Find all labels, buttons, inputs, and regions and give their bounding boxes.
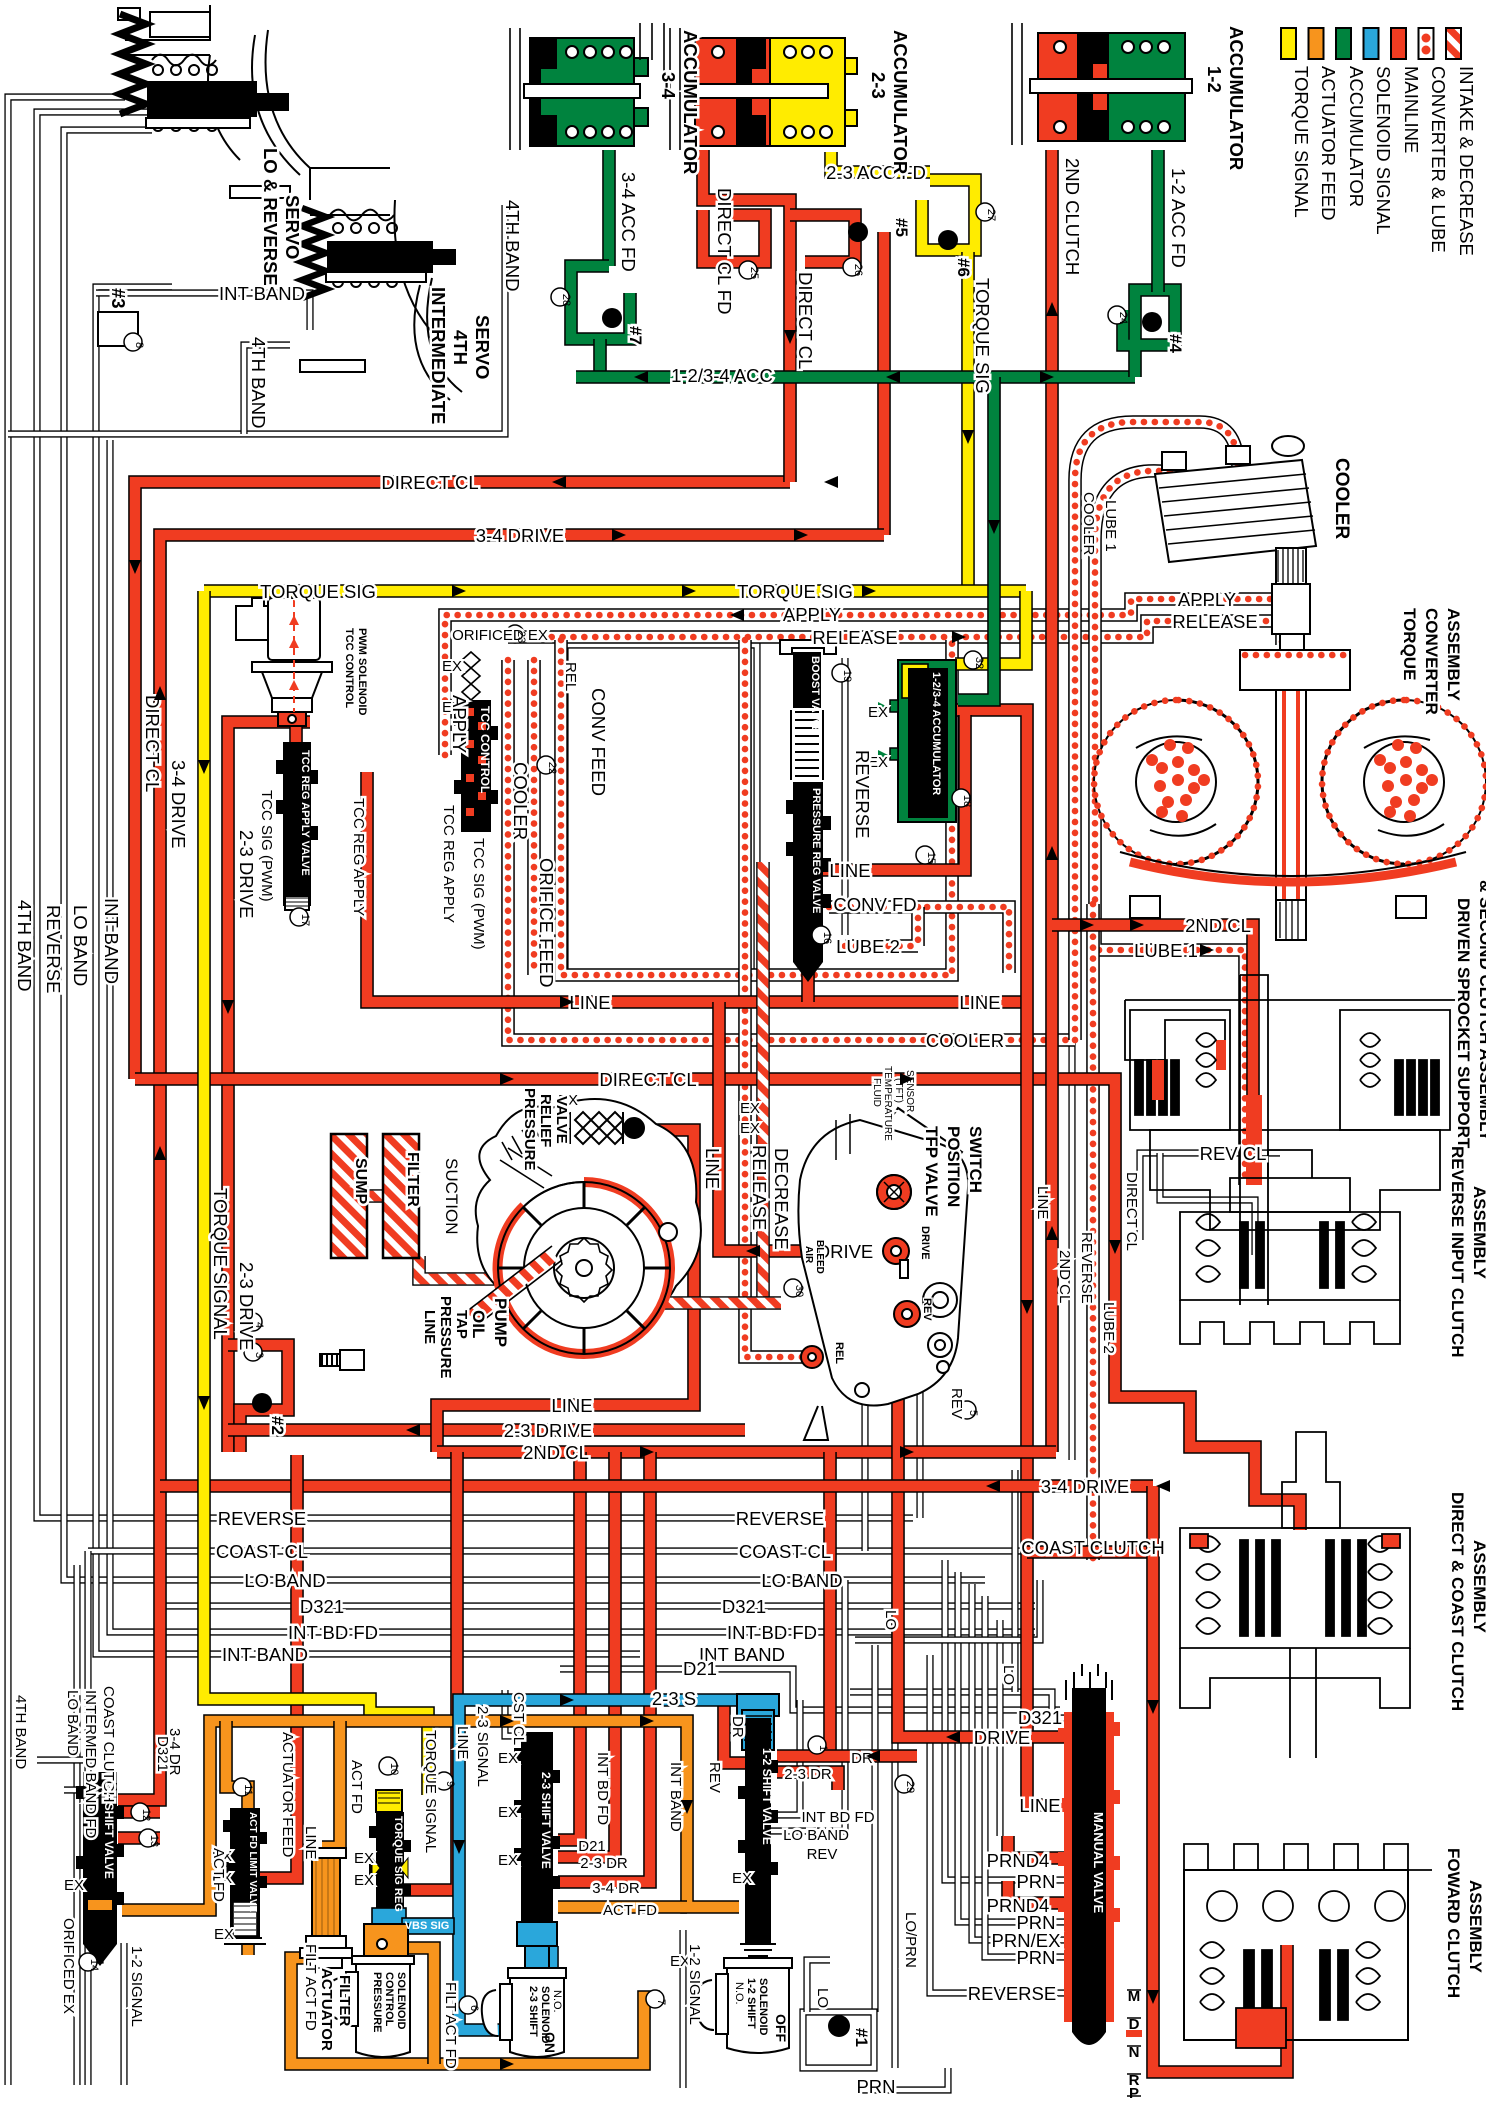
arrow orange right xyxy=(500,1715,514,1727)
svg-text:LINE: LINE xyxy=(829,860,870,881)
svg-text:LO BAND: LO BAND xyxy=(783,1827,849,1844)
svg-text:LINE: LINE xyxy=(302,1826,319,1859)
svg-text:D321: D321 xyxy=(1018,1707,1062,1728)
svg-text:TCC CONTROL: TCC CONTROL xyxy=(478,706,492,793)
svg-text:1-2: 1-2 xyxy=(1204,66,1225,93)
valve 1-2 SHIFT VALVE xyxy=(737,1694,779,1956)
svg-text:EX: EX xyxy=(732,1870,752,1887)
svg-text:4TH: 4TH xyxy=(450,330,471,365)
valve PRESSURE RELIEF VALVE xyxy=(570,1112,644,1144)
svg-text:ACT FD: ACT FD xyxy=(603,1902,657,1919)
svg-text:4TH BAND: 4TH BAND xyxy=(248,337,269,429)
legend xyxy=(1281,28,1461,59)
svg-text:REVERSE INPUT CLUTCH: REVERSE INPUT CLUTCH xyxy=(1448,1146,1467,1358)
svg-text:LO BAND: LO BAND xyxy=(64,1690,81,1756)
arrow line right xyxy=(560,996,574,1008)
svg-text:FLUID: FLUID xyxy=(871,1078,882,1107)
svg-text:PRN: PRN xyxy=(856,2076,895,2097)
legend labels xyxy=(1291,66,1477,256)
svg-text:1-2 SHIFT VALVE: 1-2 SHIFT VALVE xyxy=(760,1748,774,1845)
svg-text:P: P xyxy=(1129,2085,1139,2101)
svg-text:7: 7 xyxy=(655,1999,667,2005)
ball #7 xyxy=(602,308,622,328)
svg-text:CONVERTER: CONVERTER xyxy=(1422,608,1441,715)
svg-text:D: D xyxy=(1129,2016,1140,2033)
circle 17 xyxy=(290,908,308,926)
circle 24 xyxy=(1108,306,1126,324)
ball #6 xyxy=(938,230,958,250)
svg-text:10: 10 xyxy=(388,1763,400,1775)
circle 23 xyxy=(506,625,524,643)
black dots restrictor balls xyxy=(252,222,1162,2037)
wire 4TH BAND horizontal to 4th servo xyxy=(8,205,505,434)
svg-text:ORIFICE FEED: ORIFICE FEED xyxy=(536,858,557,988)
svg-text:3-4 SHIFT VALVE: 3-4 SHIFT VALVE xyxy=(102,1782,116,1879)
svg-text:PUMP: PUMP xyxy=(491,1298,510,1347)
svg-text:DIRECT CL: DIRECT CL xyxy=(1123,1172,1140,1251)
svg-text:REVERSE: REVERSE xyxy=(43,905,64,993)
solenoid 2-3 SHIFT SOLENOID xyxy=(482,1968,566,2057)
arrow direct vert down x1115 xyxy=(1109,1240,1121,1254)
svg-text:PRESSURE REG VALVE: PRESSURE REG VALVE xyxy=(810,788,822,914)
svg-text:TCC SIG (PWM): TCC SIG (PWM) xyxy=(470,838,487,950)
svg-text:DIRECT CL: DIRECT CL xyxy=(381,472,478,493)
arrow 3-4 drive up x160 xyxy=(154,686,166,700)
svg-text:LINE: LINE xyxy=(421,1310,438,1344)
wire 1-2 valve DR elbow xyxy=(724,1700,745,1763)
wire #7 loop xyxy=(571,266,630,339)
wire CONV FEED dotted box xyxy=(561,640,952,975)
svg-text:ACTUATOR: ACTUATOR xyxy=(318,1968,335,2051)
wire DR vertical xyxy=(823,1452,837,1756)
wire LINE to act fd limit valve xyxy=(258,1455,297,1878)
wire D21 pipe xyxy=(560,1669,1060,1710)
svg-text:4TH BAND: 4TH BAND xyxy=(14,900,35,992)
circle 9 xyxy=(435,1772,453,1790)
wire REVERSE manual valve pipe xyxy=(930,1655,1068,1993)
arrow direct cl lower right xyxy=(500,1073,514,1085)
svg-text:6: 6 xyxy=(468,2005,480,2011)
svg-text:INTERMED BAND FD: INTERMED BAND FD xyxy=(82,1690,99,1839)
svg-text:VBS SIG: VBS SIG xyxy=(405,1920,450,1932)
wire 3-4 DR feed xyxy=(558,1452,650,1882)
wire 2-3 DR 1-2 valve xyxy=(777,1772,838,1790)
svg-text:LINE: LINE xyxy=(1034,1186,1051,1219)
svg-text:2-3 SHIFT: 2-3 SHIFT xyxy=(527,1986,539,2037)
wire APPLY converter dotted xyxy=(445,599,1282,755)
svg-text:PRN: PRN xyxy=(1016,1947,1055,1968)
arrow green acc right xyxy=(1040,371,1054,383)
svg-text:4: 4 xyxy=(253,1322,265,1328)
svg-text:15: 15 xyxy=(925,852,937,864)
COLORED xyxy=(445,422,1292,1560)
svg-text:REV CL: REV CL xyxy=(1200,1143,1267,1164)
svg-text:EX: EX xyxy=(740,1100,760,1117)
wire 2ND CL branch to sprocket xyxy=(1052,925,1253,1180)
ball #2 xyxy=(252,1393,272,1413)
wire #5 to 3-4 drive xyxy=(877,232,891,535)
svg-text:3-4 DRIVE: 3-4 DRIVE xyxy=(1041,1476,1129,1497)
arrow lube1 right xyxy=(1200,944,1214,956)
wire REV CL second xyxy=(1160,1153,1255,1255)
svg-text:28: 28 xyxy=(560,294,572,306)
svg-text:TAP: TAP xyxy=(453,1310,470,1339)
svg-text:INT BAND: INT BAND xyxy=(101,898,122,984)
wire REVERSE right vertical xyxy=(1068,640,1075,1460)
svg-text:4TH BAND: 4TH BAND xyxy=(12,1695,29,1769)
svg-text:PRND4: PRND4 xyxy=(987,1850,1050,1871)
ARROWS xyxy=(129,302,1214,2070)
wire COAST CLUTCH left vertical xyxy=(84,1551,91,2085)
wire TORQUE SIGNAL left vertical xyxy=(204,591,428,1795)
svg-text:COOLER: COOLER xyxy=(926,1030,1004,1051)
circled numbers text xyxy=(88,209,1129,2011)
svg-text:M: M xyxy=(1128,1988,1141,2005)
accumulator 3-4 ACCUMULATOR xyxy=(510,28,648,150)
svg-text:SWITCH: SWITCH xyxy=(966,1126,985,1193)
servo INTERMEDIATE 4TH SERVO xyxy=(300,168,462,400)
svg-text:#4: #4 xyxy=(1166,334,1185,353)
wire CONV FD dotted xyxy=(829,907,1009,973)
wire LO BAND 1-2 valve stub xyxy=(771,1580,845,1831)
ball #5 xyxy=(848,222,868,242)
svg-text:#2: #2 xyxy=(268,1416,287,1435)
svg-text:N.O.: N.O. xyxy=(733,1982,745,2005)
wire pressure relief to LINE xyxy=(437,1130,694,1452)
svg-text:CONVERTER & LUBE: CONVERTER & LUBE xyxy=(1428,66,1449,253)
svg-text:14: 14 xyxy=(88,1959,100,1971)
numbered restrictor circles xyxy=(79,203,1126,2014)
wire LUBE 2 dotted stub xyxy=(845,907,918,946)
svg-text:2ND CL: 2ND CL xyxy=(1056,1250,1073,1303)
wire 2-3 DRIVE vertical xyxy=(228,722,310,1452)
circle 25 xyxy=(739,261,757,279)
svg-text:DIRECT CL FD: DIRECT CL FD xyxy=(714,188,735,314)
circle 4 xyxy=(244,1313,262,1331)
wire LUBE 1 dotted xyxy=(1095,471,1245,1185)
arrow orange bottom right xyxy=(500,2058,514,2070)
arrow 2nd clutch up 1 xyxy=(1046,302,1058,316)
wire 2-3 S blue xyxy=(459,1700,741,2030)
arrow 2nd clutch up 2 xyxy=(1046,846,1058,860)
svg-text:3-4 DRIVE: 3-4 DRIVE xyxy=(476,525,564,546)
wire LINE right vertical xyxy=(945,710,1068,1805)
svg-text:DRIVE: DRIVE xyxy=(974,1727,1031,1748)
wire PRND4 feed pipe xyxy=(996,1620,1003,1836)
svg-text:2-3 S: 2-3 S xyxy=(652,1688,696,1709)
wire COOLER dotted vertical to cooler xyxy=(1075,422,1238,1040)
svg-text:2-3 SHIFT VALVE: 2-3 SHIFT VALVE xyxy=(539,1772,553,1869)
wire #1 loop xyxy=(803,2012,874,2068)
wire #4 loop xyxy=(1123,290,1175,377)
svg-text:11: 11 xyxy=(242,1784,254,1795)
arrow manual drive left xyxy=(946,1731,960,1743)
wire 3-4 DRIVE lower xyxy=(160,1479,1153,1493)
svg-text:EX: EX xyxy=(740,1120,760,1137)
arrow dr left xyxy=(866,1750,880,1762)
svg-text:4TH BAND: 4TH BAND xyxy=(502,200,523,292)
valve TCC REG APPLY VALVE xyxy=(276,742,318,910)
svg-text:2-3 DR: 2-3 DR xyxy=(784,1766,832,1783)
svg-text:LO BAND: LO BAND xyxy=(70,905,91,986)
circle 7 xyxy=(646,1990,664,2008)
svg-text:TCC SIG (PWM): TCC SIG (PWM) xyxy=(258,790,275,902)
wire ORIFICE FEED dotted xyxy=(527,660,541,975)
svg-text:LO: LO xyxy=(814,1988,831,2008)
svg-text:ORIFICED EX: ORIFICED EX xyxy=(452,627,548,644)
svg-text:LO BAND: LO BAND xyxy=(761,1570,842,1591)
wire green accumulator drop xyxy=(958,377,994,700)
svg-text:LUBE 2: LUBE 2 xyxy=(836,936,900,957)
solenoid 1-2 SHIFT SOLENOID xyxy=(696,1958,792,2053)
svg-text:SERVO: SERVO xyxy=(472,315,493,379)
svg-text:1-2 SIGNAL: 1-2 SIGNAL xyxy=(128,1946,145,2027)
arrow 2nd clutch up 3 xyxy=(1046,1226,1058,1240)
svg-text:SUMP: SUMP xyxy=(352,1158,369,1205)
COMPONENTS xyxy=(98,5,462,400)
svg-text:EX: EX xyxy=(214,1926,234,1943)
svg-text:TORQUE SIGNAL: TORQUE SIGNAL xyxy=(210,1188,231,1340)
svg-text:ACT FD LIMIT VALVE: ACT FD LIMIT VALVE xyxy=(247,1812,258,1913)
valve TCC CONTROL xyxy=(454,652,498,832)
wire sump-filter hatched joint xyxy=(360,1189,390,1203)
svg-text:AIR: AIR xyxy=(803,1246,814,1264)
svg-text:REV: REV xyxy=(706,1762,723,1793)
svg-text:9: 9 xyxy=(444,1781,456,1787)
arrow blue right xyxy=(560,1694,574,1706)
circle 14 xyxy=(79,1953,97,1971)
circle 28 xyxy=(551,288,569,306)
wire manual bundle pipe a xyxy=(1011,1470,1018,1692)
wire LO stub xyxy=(807,1960,830,2012)
valve title texts xyxy=(102,656,1106,1932)
component TFP VALVE POSITION SWITCH xyxy=(798,1108,968,1440)
arrow green acc left xyxy=(634,371,648,383)
svg-text:FILT ACT FD: FILT ACT FD xyxy=(442,1982,459,2069)
svg-text:REVERSE: REVERSE xyxy=(218,1508,306,1529)
arrow 3-4 drive lower left2 xyxy=(1156,1480,1170,1492)
wire 3-4 valve stub 13 xyxy=(118,1831,160,1845)
wire RELEASE converter dotted xyxy=(508,621,1292,655)
wire LO vertical xyxy=(871,1645,878,2012)
arrow 3-4 drive right 2 xyxy=(794,529,808,541)
svg-text:16: 16 xyxy=(821,932,833,944)
svg-text:RELEASE: RELEASE xyxy=(749,1145,770,1230)
arrow yellow top down xyxy=(962,430,974,444)
wire REVERSE vertical + horizontal xyxy=(37,112,913,1518)
svg-text:ASSEMBLY: ASSEMBLY xyxy=(1470,1540,1486,1634)
arrow release right xyxy=(952,631,966,643)
component DRIVEN SPROCKET SUPPORT & SECOND CLUTCH ASSEMBLY xyxy=(1125,975,1455,1305)
wire 2ND CLUTCH vertical xyxy=(1045,150,1059,1452)
wire 4TH BAND left vertical xyxy=(8,97,125,2085)
wire limit valve bottom stub xyxy=(241,1943,255,1955)
svg-text:POSITION: POSITION xyxy=(944,1126,963,1207)
svg-text:3-4: 3-4 xyxy=(658,72,679,99)
svg-text:VALVE: VALVE xyxy=(553,1096,570,1144)
valve 25 red loop xyxy=(703,210,765,262)
circle 27 xyxy=(976,203,994,221)
circle 19 xyxy=(832,664,850,682)
svg-text:D21: D21 xyxy=(578,1838,606,1855)
circle 16 xyxy=(812,926,830,944)
svg-text:FILTER: FILTER xyxy=(404,1152,421,1207)
wire LO/PRN vertical xyxy=(891,1560,898,2068)
component FILTER hatched xyxy=(383,1134,419,1258)
svg-text:ACT FD: ACT FD xyxy=(348,1760,365,1814)
valve 2-3 SHIFT VALVE xyxy=(514,1732,560,1968)
svg-text:INT BAND: INT BAND xyxy=(219,283,305,304)
svg-text:EX: EX xyxy=(354,1872,374,1889)
svg-text:OFF: OFF xyxy=(773,2014,789,2042)
svg-text:24: 24 xyxy=(1117,312,1129,324)
svg-text:DRIVEN SPROCKET SUPPORT: DRIVEN SPROCKET SUPPORT xyxy=(1454,898,1473,1149)
wire 3-4 DRIVE xyxy=(118,535,884,1800)
solenoid PRESSURE CONTROL SOLENOID xyxy=(328,1924,414,2057)
svg-text:2-3: 2-3 xyxy=(868,72,889,99)
component ACTUATOR FILTER xyxy=(300,1848,352,1968)
svg-text:TORQUE SIGNAL: TORQUE SIGNAL xyxy=(1291,66,1312,218)
svg-text:TCC REG APPLY: TCC REG APPLY xyxy=(350,798,367,916)
svg-text:APPLY: APPLY xyxy=(1178,589,1236,610)
svg-text:3-4 DR: 3-4 DR xyxy=(166,1728,183,1776)
arrow apply left xyxy=(730,609,744,621)
svg-text:ON: ON xyxy=(542,2032,558,2053)
wire CST CL stub xyxy=(505,1690,521,1736)
svg-text:REL: REL xyxy=(833,1342,845,1364)
arrow red drop down x790 xyxy=(784,330,796,344)
circle 13 xyxy=(139,1829,157,1847)
wire filt act fd right xyxy=(404,1948,434,2064)
circle 15 xyxy=(916,846,934,864)
svg-text:ACTUATOR FEED: ACTUATOR FEED xyxy=(279,1732,296,1857)
wire INTERMED BAND FD vertical xyxy=(73,1565,80,2085)
svg-text:LO: LO xyxy=(1000,1665,1017,1685)
svg-text:TORQUE: TORQUE xyxy=(1400,608,1419,680)
svg-text:LO/PRN: LO/PRN xyxy=(902,1912,919,1968)
svg-text:REVERSE: REVERSE xyxy=(852,750,873,838)
component SUMP hatched xyxy=(331,1134,367,1258)
svg-text:EX: EX xyxy=(498,1852,518,1869)
wire 1-2/3-4 ACC horizontal xyxy=(576,370,1135,384)
svg-text:2-3 SIGNAL: 2-3 SIGNAL xyxy=(474,1706,491,1787)
svg-text:CST CL: CST CL xyxy=(510,1692,527,1745)
wire intake hatched horizontal xyxy=(536,1296,781,1310)
wire ACTUATOR FEED main loop xyxy=(122,1721,739,1910)
wire 2-3 ACC FD yellow xyxy=(831,152,930,172)
svg-text:INT BD FD: INT BD FD xyxy=(594,1752,611,1825)
svg-text:REL: REL xyxy=(562,662,579,691)
svg-text:CONTROL: CONTROL xyxy=(383,1972,395,2027)
svg-text:COOLER: COOLER xyxy=(1080,492,1097,556)
arrow torque sig right 1 xyxy=(452,585,466,597)
component TORQUE CONVERTER ASSEMBLY xyxy=(1094,548,1486,940)
arrow 3-4 drive up x160b xyxy=(154,1146,166,1160)
svg-text:18: 18 xyxy=(961,795,973,807)
svg-text:BLEED: BLEED xyxy=(814,1240,825,1274)
svg-text:27: 27 xyxy=(985,209,997,221)
wire 1-2 ACC FD stem xyxy=(1151,150,1165,292)
wire REL dotted xyxy=(745,640,806,1357)
svg-text:EX: EX xyxy=(354,1850,374,1867)
svg-text:REVERSE: REVERSE xyxy=(1078,1232,1095,1304)
svg-text:TORQUE SIG REG: TORQUE SIG REG xyxy=(392,1816,404,1912)
wire TCC solenoid feed xyxy=(289,722,303,748)
svg-text:BOOST VALVE: BOOST VALVE xyxy=(809,656,821,733)
svg-text:TORQUE SIG: TORQUE SIG xyxy=(737,581,853,602)
svg-text:DR: DR xyxy=(729,1716,746,1738)
svg-text:1-2 SHIFT: 1-2 SHIFT xyxy=(745,1978,757,2029)
arrow direct cl down x135 xyxy=(129,560,141,574)
valve 26 red loop xyxy=(790,215,855,262)
svg-text:#3: #3 xyxy=(108,288,129,309)
svg-text:RELEASE: RELEASE xyxy=(812,627,897,648)
wire D21 feed xyxy=(558,1452,580,1840)
arrow yellow down 1 xyxy=(198,760,210,774)
arrow direct cl left 1 xyxy=(552,476,566,488)
svg-text:TCC REG APPLY VALVE: TCC REG APPLY VALVE xyxy=(299,750,311,876)
wire PRN/EX pipe xyxy=(972,1584,1068,1940)
wire 2-3 DRIVE horizontal xyxy=(228,1423,745,1437)
circle 3 xyxy=(244,1343,262,1361)
wire 1-2 SIGNAL right vertical xyxy=(679,1930,686,2088)
arrow green acc left2 xyxy=(886,371,900,383)
svg-text:ASSEMBLY: ASSEMBLY xyxy=(1470,1186,1486,1280)
circle 30 xyxy=(784,1279,802,1297)
svg-text:LINE: LINE xyxy=(569,992,610,1013)
svg-text:REV: REV xyxy=(948,1388,965,1419)
arrow 2nd cl label right xyxy=(1080,919,1094,931)
circle 1 xyxy=(808,1736,826,1754)
arrow blue down xyxy=(453,1840,465,1854)
svg-text:LINE: LINE xyxy=(454,1726,471,1759)
wire orificed ex stub xyxy=(80,1905,100,1960)
svg-text:ACCUMULATOR: ACCUMULATOR xyxy=(680,30,701,174)
svg-text:LO BAND: LO BAND xyxy=(244,1570,325,1591)
wire REV CL pipe xyxy=(1140,1153,1280,1240)
svg-text:APPLY: APPLY xyxy=(449,695,470,753)
svg-text:TORQUE SIGNAL: TORQUE SIGNAL xyxy=(422,1730,439,1853)
svg-text:ACCUMULATOR: ACCUMULATOR xyxy=(1346,66,1367,207)
svg-text:CONV FEED: CONV FEED xyxy=(588,688,609,796)
wire #2 loop xyxy=(228,1345,288,1452)
svg-text:LUBE 2: LUBE 2 xyxy=(1100,1302,1117,1354)
arrow 2nd cl horiz right2 xyxy=(900,1446,914,1458)
svg-text:26: 26 xyxy=(852,264,864,276)
valve MANUAL VALVE xyxy=(1058,1664,1120,2045)
wire actuator feed branch to limit valve xyxy=(226,1721,248,1812)
arrow torque sig right 3 xyxy=(862,585,876,597)
svg-text:LO & REVERSE: LO & REVERSE xyxy=(260,148,281,286)
arrow orange right2 xyxy=(640,1715,654,1727)
svg-text:LINE: LINE xyxy=(702,1148,723,1189)
ball #4 xyxy=(1142,312,1162,332)
svg-text:MAINLINE: MAINLINE xyxy=(1401,66,1422,153)
svg-text:29: 29 xyxy=(904,1781,916,1793)
wire 2-3 solenoid blue stub xyxy=(545,1946,559,1968)
wire D321 manual valve pipe xyxy=(850,1692,1068,1718)
wire PRND4 upper xyxy=(1008,1836,1068,1858)
svg-text:EX: EX xyxy=(64,1877,84,1894)
svg-text:EX: EX xyxy=(868,704,888,721)
svg-text:D321: D321 xyxy=(300,1596,344,1617)
arrow 2nd cl branch right xyxy=(1130,919,1144,931)
wire LO BAND vertical + horizontal xyxy=(64,130,985,1580)
svg-text:LINE: LINE xyxy=(551,1395,592,1416)
svg-text:SOLENOID: SOLENOID xyxy=(757,1978,769,2036)
svg-text:INT BD FD: INT BD FD xyxy=(727,1622,817,1643)
svg-text:ASSEMBLY: ASSEMBLY xyxy=(1444,608,1463,702)
